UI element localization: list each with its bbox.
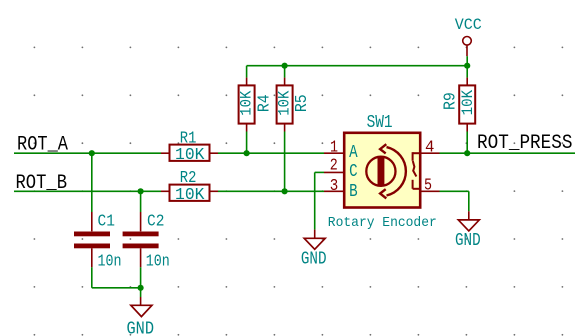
wire ROT_A left segment: [14, 152, 161, 154]
svg-text:10n: 10n: [146, 253, 170, 272]
wire R4 bottom to ROT_A: [246, 132, 248, 154]
wire R5 bottom to ROT_B: [284, 132, 286, 192]
junction C1 C2 GND: [138, 285, 144, 291]
svg-text:2: 2: [330, 157, 338, 176]
wire C2 bottom to GND: [140, 267, 142, 297]
rotary encoder SW1: [324, 113, 440, 231]
svg-text:B: B: [349, 182, 358, 202]
svg-text:5: 5: [424, 176, 432, 195]
svg-text:10K: 10K: [175, 146, 205, 165]
rotation arrow bottom: [380, 189, 386, 198]
switch contact top: [413, 152, 420, 154]
resistor R1: [161, 130, 218, 165]
wire pin2 to mid GND horizontal: [315, 171, 324, 173]
wire R5 top connect: [284, 66, 286, 78]
resistor R4: [238, 78, 275, 132]
svg-text:GND: GND: [301, 250, 327, 270]
svg-text:10K: 10K: [276, 90, 294, 115]
wire ROT_B left segment: [14, 190, 161, 192]
switch contact bottom: [412, 180, 414, 189]
svg-text:R4: R4: [255, 94, 274, 112]
pin 3: [324, 190, 344, 192]
pin 5: [420, 190, 440, 192]
wire VCC down: [466, 56, 468, 77]
wire R4 top lead connect: [246, 66, 248, 78]
svg-text:VCC: VCC: [455, 16, 482, 34]
svg-text:Rotary Encoder: Rotary Encoder: [328, 215, 437, 231]
wire C1 bottom: [91, 267, 93, 288]
junction ROT_A / C1: [89, 150, 95, 156]
junction top bus / R5: [282, 63, 288, 69]
ground right: [455, 211, 481, 251]
svg-text:4: 4: [425, 138, 434, 157]
junction ROT_B / R5: [282, 188, 288, 194]
resistor R9: [442, 78, 478, 132]
capacitor C2: [123, 212, 170, 272]
svg-text:C: C: [349, 162, 358, 182]
SW1 body box: [344, 133, 420, 208]
svg-text:10K: 10K: [175, 186, 205, 205]
encoder circle: [366, 157, 395, 186]
wire R2 to pin3: [218, 190, 324, 192]
svg-text:3: 3: [330, 177, 339, 196]
switch lever: [413, 161, 417, 177]
svg-text:GND: GND: [127, 320, 155, 336]
svg-text:C2: C2: [147, 212, 164, 231]
pin 2: [324, 171, 344, 173]
pin 1: [324, 152, 344, 154]
wire C2 vertical drop: [140, 191, 142, 212]
wire pin4 to ROT_PRESS: [440, 152, 576, 154]
wire C1 to C2 bottom junction: [92, 287, 141, 289]
ground left: [127, 297, 155, 336]
wire R1 to pin1: [218, 152, 324, 154]
svg-text:ROT_A: ROT_A: [17, 134, 68, 157]
capacitor C1: [74, 212, 122, 272]
wire pin5 to GND: [440, 190, 469, 192]
wire top bus R4 to VCC: [247, 65, 468, 67]
svg-text:R9: R9: [442, 92, 461, 110]
svg-text:A: A: [349, 143, 358, 163]
wire R9 bottom to ROT_PRESS: [466, 132, 468, 154]
power flag VCC: [455, 16, 482, 56]
resistor R5: [276, 78, 313, 132]
svg-text:ROT_PRESS: ROT_PRESS: [477, 132, 573, 155]
svg-text:C1: C1: [98, 212, 115, 231]
svg-text:R5: R5: [293, 94, 312, 112]
junction ROT_A / R4: [244, 150, 250, 156]
wire pin2 GND vertical: [314, 172, 316, 229]
svg-text:10K: 10K: [238, 90, 256, 115]
wire pin5 GND vertical: [468, 191, 470, 211]
svg-text:GND: GND: [455, 231, 481, 251]
svg-text:1: 1: [330, 138, 338, 157]
svg-text:ROT_B: ROT_B: [16, 172, 68, 195]
rotation arc: [387, 147, 406, 195]
junction ROT_B / C2: [138, 188, 144, 194]
encoder bar: [378, 157, 385, 186]
pin 4: [420, 152, 440, 154]
resistor R2: [161, 169, 218, 205]
svg-text:10K: 10K: [459, 90, 477, 116]
junction top bus / VCC: [464, 63, 470, 69]
wire C1 vertical drop: [91, 153, 93, 212]
junction ROT_PRESS / R9: [464, 150, 470, 156]
svg-text:10n: 10n: [98, 253, 122, 272]
ground middle: [301, 230, 327, 270]
rotation arrow top: [380, 144, 386, 153]
svg-text:SW1: SW1: [367, 113, 393, 133]
